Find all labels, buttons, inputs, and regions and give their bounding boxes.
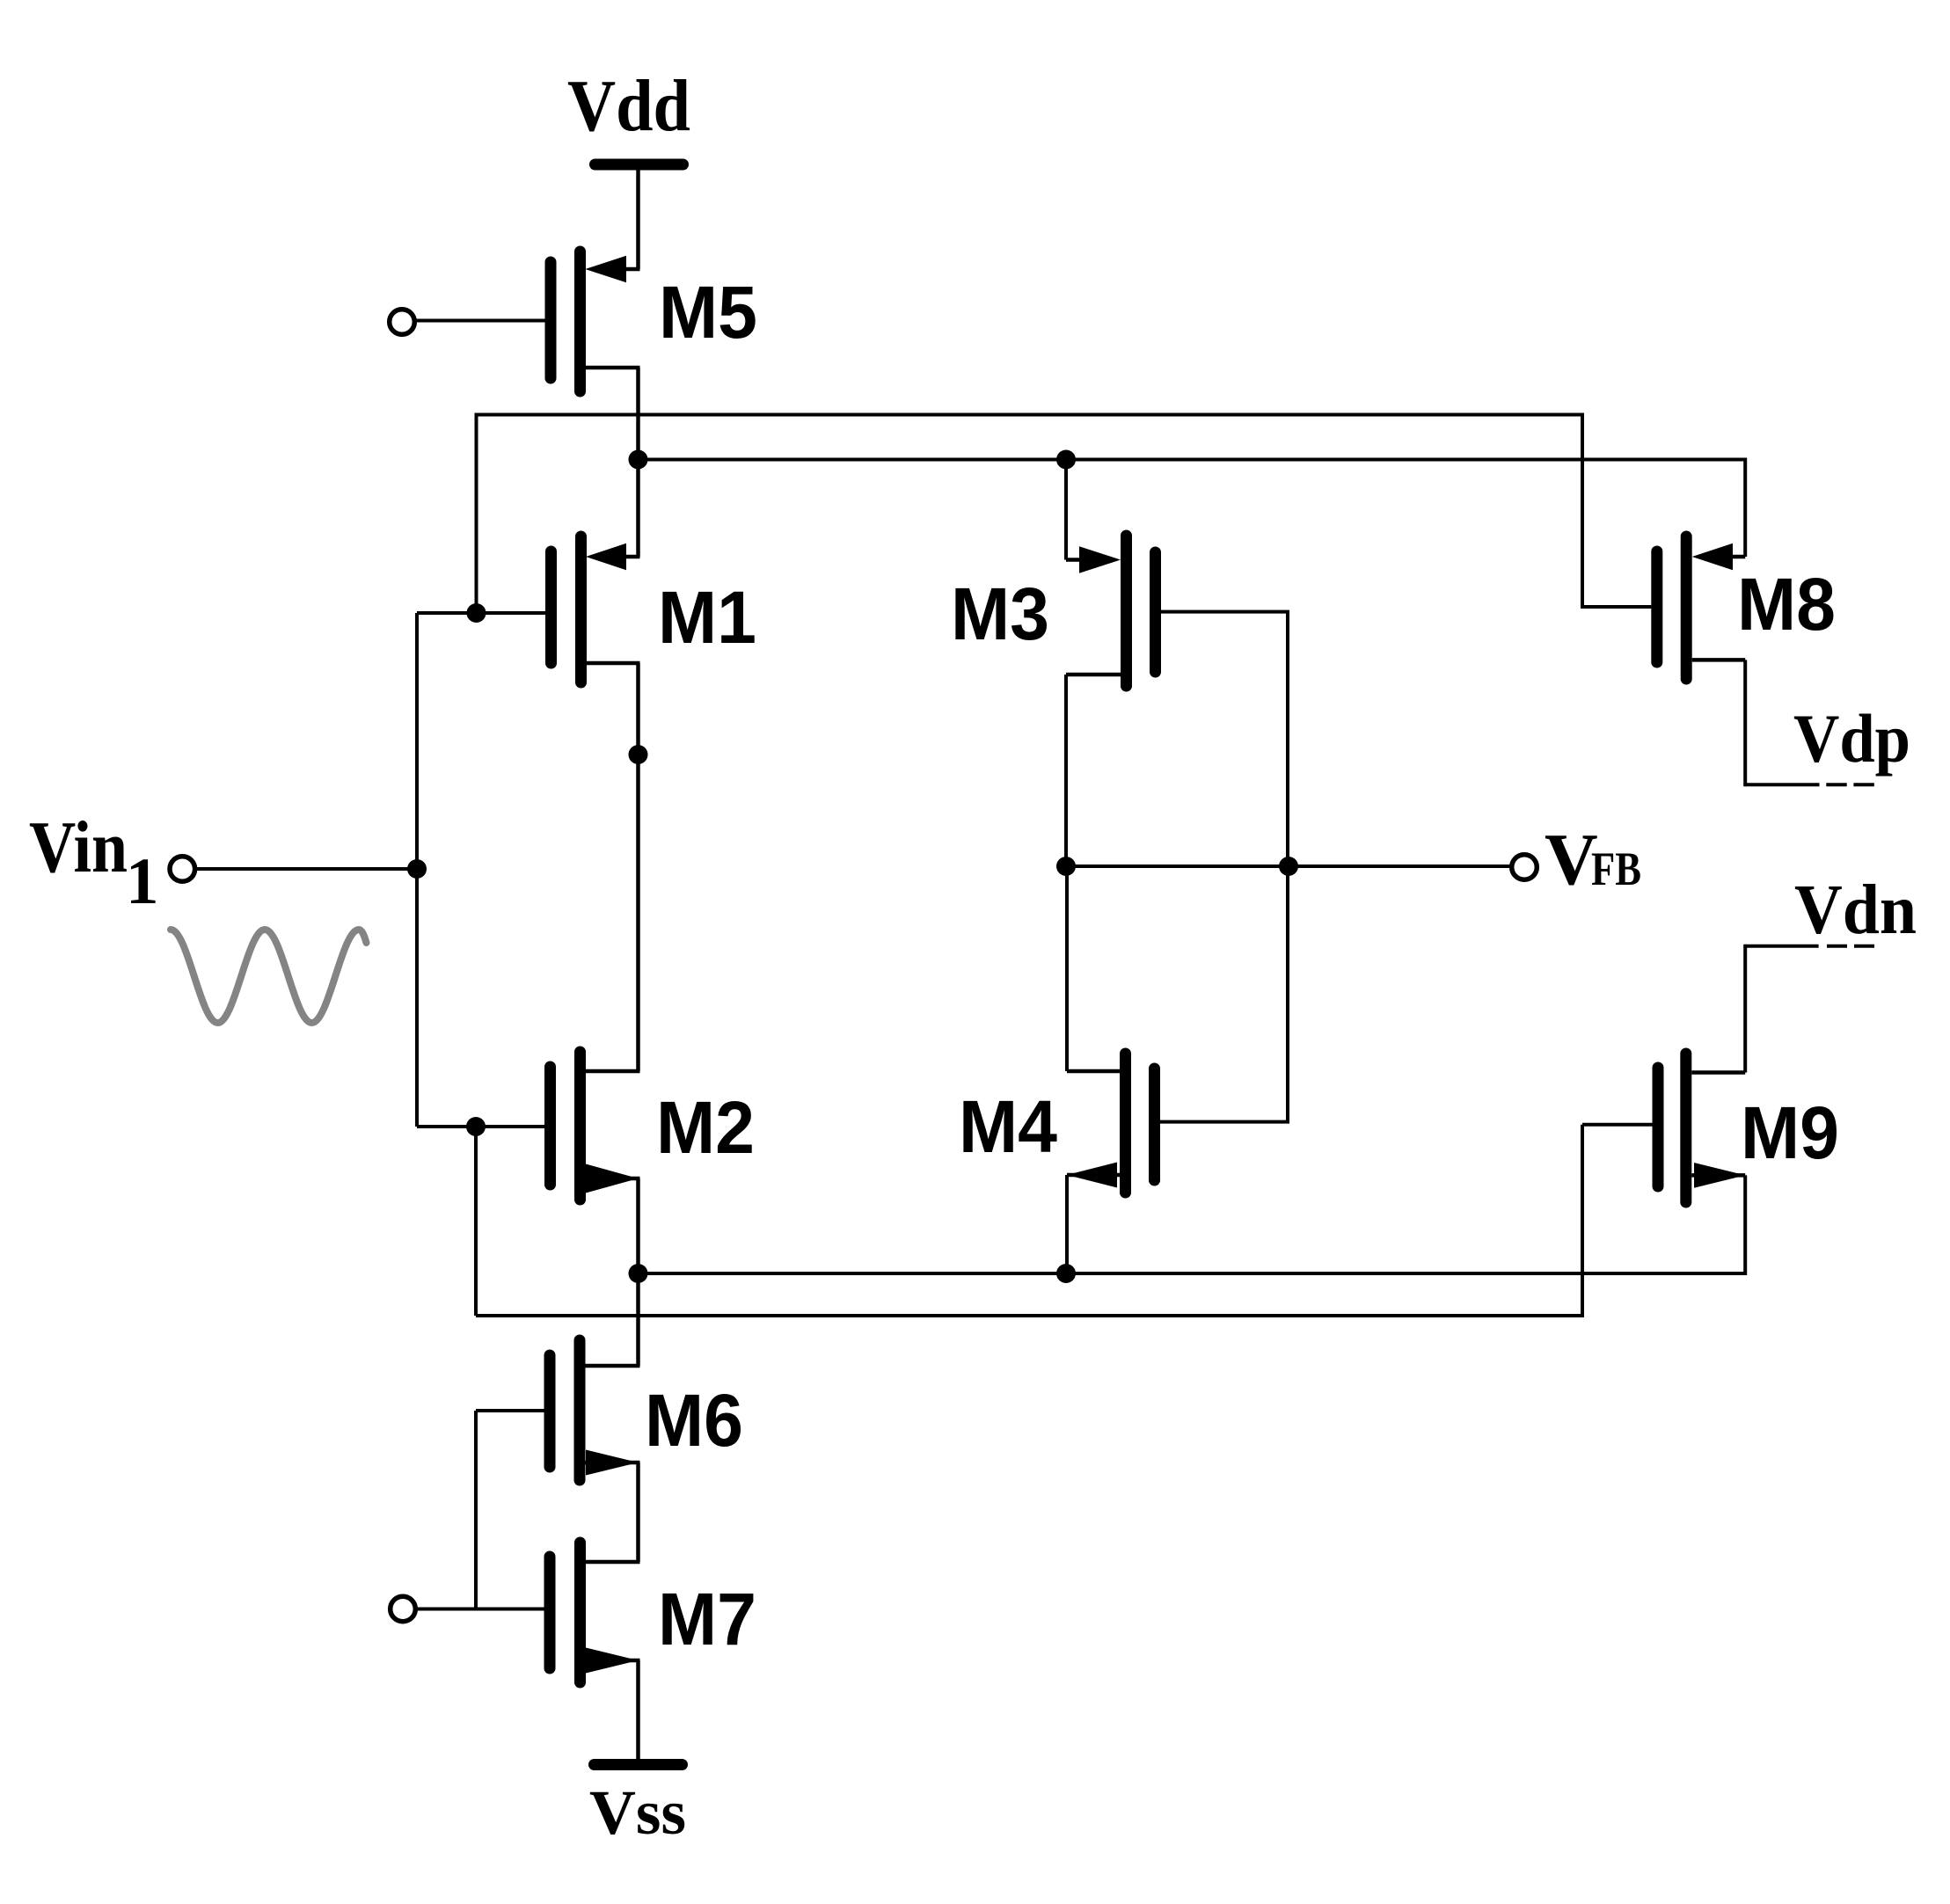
svg-text:Vdp: Vdp [1793,700,1910,777]
wire: M1 gate [417,611,545,615]
wire: M2 gate node down to line D [474,1127,478,1316]
node: junction of M5 drain / M1 source / line B [629,450,648,470]
svg-text:FB: FB [1591,843,1641,895]
transistor M6 (NMOS) [550,1340,640,1480]
svg-text:Vdd: Vdd [567,65,690,147]
Vdn dashed stub [1827,945,1874,948]
transistor M4 (NMOS, mirrored) [1067,1054,1155,1193]
wire: M3 drain down to VFB node [1064,675,1068,866]
Vdd supply rail symbol [595,164,683,269]
wire: M9 gate from line D riser [1582,1123,1658,1127]
wire: M7 gate [416,1608,545,1611]
svg-text:M5: M5 [659,271,757,354]
transistor M7 (NMOS) [550,1543,640,1682]
wire: line B (virtual supply M5 drain to M3/M8 sources) [639,460,1746,558]
Vin1 input terminal [170,857,195,882]
wire: line C (M2/M6 node to M4 source and M9 source) [639,1175,1746,1273]
input sine wave symbol [171,930,367,1023]
svg-text:M4: M4 [959,1085,1057,1168]
wire: Vin1 to gate riser [195,867,417,871]
wire: M2 gate [417,1125,545,1128]
node: VFB junction left (M3 drain / M4 drain) [1056,857,1076,876]
transistor M5 (PMOS) [551,252,640,391]
M7 gate input terminal [391,1596,416,1622]
wire: M5 drain to M1 source (node B riser) [636,368,640,557]
node: M1 gate junction with line A [467,603,486,623]
svg-text:Vin: Vin [29,806,128,888]
wire: M6 gate [476,1409,544,1412]
wire: M7 source to Vss [636,1660,640,1759]
wire: VFB node line [1066,864,1510,868]
svg-text:M3: M3 [951,573,1049,655]
transistor M2 (NMOS) [551,1052,640,1200]
node: M3 source junction on line B [1056,450,1076,470]
Vdp dashed stub [1826,783,1874,786]
wire: M1 drain down to M2 drain [636,663,640,1071]
Vss supply rail symbol [595,1759,683,1770]
node: junction of M2 source / M4 source rail (line C) [629,1264,648,1283]
node: Vin1 junction [407,859,427,879]
svg-text:M8: M8 [1737,563,1836,646]
wire: M9 drain to Vdn [1745,946,1818,1073]
wire: Vin riser joining M1 and M2 gates [415,613,419,1127]
transistor M8 (PMOS) [1657,536,1745,679]
svg-text:M9: M9 [1741,1091,1839,1174]
node: M4 source junction on line C [1056,1264,1076,1283]
svg-text:M2: M2 [656,1086,755,1169]
wire: M4 drain riser from VFB node [1065,866,1069,1071]
node: M2 gate junction [466,1117,486,1136]
wire: M8 drain to Vdp [1745,660,1819,784]
VFB output terminal [1512,855,1537,880]
wire: line A (M1 gate to M8 gate) [477,415,1652,614]
M5 gate input terminal [390,310,415,335]
wire: M4 gate riser from VFB node [1158,866,1288,1122]
svg-text:V: V [1545,819,1598,901]
wire: M4 source down to line C [1065,1175,1069,1273]
wire: line D (gate net to M9 gate) [476,1125,1582,1316]
Vin1 net label [29,806,159,918]
transistor M3 (PMOS, mirrored) [1066,536,1156,686]
node: VFB junction right (M3 gate / M4 gate) [1279,857,1298,876]
node: dot on M1-M2 drain wire [629,745,648,764]
transistor M1 (PMOS) [551,536,640,682]
svg-text:M1: M1 [658,576,756,659]
wire: M6 gate tied to M7 gate [474,1411,478,1609]
svg-text:1: 1 [126,845,159,918]
wire: M5 gate [415,319,545,323]
VFB net label [1545,819,1641,901]
svg-text:Vss: Vss [589,1777,686,1848]
wire: M3 source riser from line B [1064,460,1068,560]
wire: M3 gate to VFB riser [1161,612,1288,866]
wire: M6 source to M7 drain [636,1463,640,1562]
svg-text:M6: M6 [645,1379,743,1462]
transistor M9 (NMOS, mirrored body right) [1658,1054,1745,1202]
svg-text:M7: M7 [658,1578,756,1660]
wire: M2 source down to M6 drain [636,1178,640,1366]
svg-text:Vdn: Vdn [1794,872,1917,949]
